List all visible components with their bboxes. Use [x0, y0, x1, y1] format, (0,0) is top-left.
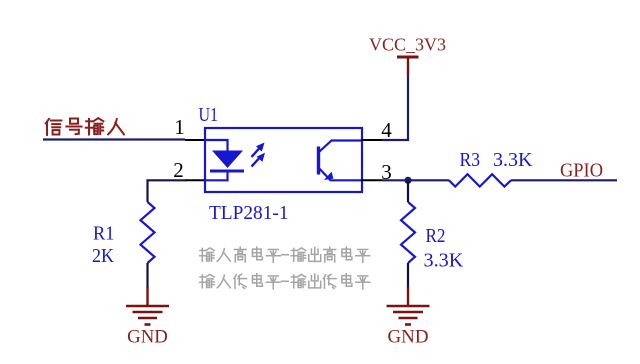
svg-text:3.3K: 3.3K: [493, 149, 533, 171]
optocoupler U1 body: [205, 128, 362, 192]
wire R3 to GPIO: [511, 179, 617, 181]
ground symbol right: [387, 287, 430, 325]
pin 4 stub: [361, 139, 382, 141]
wire signal-input to pin1: [43, 138, 185, 140]
phototransistor inside U1: [319, 141, 362, 181]
wire R1 to ground: [146, 263, 148, 288]
resistor R2: [401, 202, 415, 263]
svg-text:3.3K: 3.3K: [424, 250, 464, 272]
ground symbol left: [126, 287, 169, 325]
svg-text:GPIO: GPIO: [560, 160, 603, 182]
pin 1 stub: [185, 139, 204, 141]
wire pin4 to VCC: [382, 74, 408, 141]
note text line 2: 输入低电平-输出低电平: [200, 274, 370, 289]
note text line 1: 输入高电平-输出高电平: [200, 247, 370, 262]
junction node: [404, 177, 411, 184]
pin 2 stub: [185, 179, 204, 181]
svg-text:2K: 2K: [92, 245, 114, 267]
svg-text:GND: GND: [388, 328, 429, 348]
svg-text:R3: R3: [460, 149, 481, 171]
net label 信号输入 (signal input): [46, 118, 124, 135]
svg-text:4: 4: [381, 118, 392, 142]
LED emission arrows: [252, 143, 266, 167]
svg-text:R2: R2: [426, 225, 446, 247]
svg-text:U1: U1: [199, 105, 219, 126]
wire pin2 to R1: [148, 180, 187, 202]
svg-text:1: 1: [174, 115, 185, 139]
resistor R1: [141, 202, 155, 263]
svg-text:2: 2: [173, 158, 184, 182]
svg-text:VCC_3V3: VCC_3V3: [369, 35, 446, 55]
LED inside U1: [205, 140, 244, 180]
wire pin3 to junction and R3: [382, 179, 449, 181]
power symbol VCC_3V3: [397, 57, 419, 75]
pin 3 stub: [361, 179, 382, 181]
svg-text:GND: GND: [127, 328, 168, 348]
wire R2 to ground: [407, 263, 409, 288]
svg-text:TLP281-1: TLP281-1: [209, 202, 289, 224]
wire junction to R2: [407, 180, 409, 202]
svg-text:R1: R1: [93, 223, 115, 245]
resistor R3: [449, 174, 511, 186]
